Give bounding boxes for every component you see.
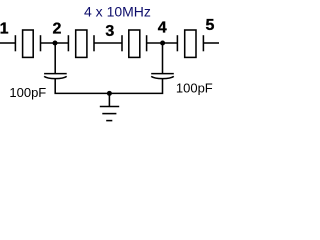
svg-text:2: 2 bbox=[53, 21, 62, 38]
capacitor C2 bbox=[151, 74, 174, 79]
svg-text:100pF: 100pF bbox=[9, 85, 46, 100]
svg-text:4: 4 bbox=[158, 20, 167, 37]
crystal X1 bbox=[15, 30, 40, 57]
crystal X3 bbox=[122, 30, 147, 57]
wire node 4 down to C2 bbox=[162, 43, 164, 74]
wire ground stem bbox=[108, 93, 110, 106]
wire X3 to X4 through node 4 bbox=[147, 42, 178, 44]
svg-text:1: 1 bbox=[0, 21, 9, 38]
svg-text:3: 3 bbox=[105, 23, 114, 40]
crystal X4 bbox=[177, 30, 203, 57]
wire node1 to X1 bbox=[0, 42, 15, 44]
wire C2 to ground bus bbox=[109, 79, 162, 94]
wire X4 to node 5 bbox=[203, 42, 219, 44]
svg-text:4 x 10MHz: 4 x 10MHz bbox=[84, 3, 151, 19]
capacitor C1 bbox=[44, 74, 67, 79]
svg-text:5: 5 bbox=[205, 17, 214, 34]
junction node 2 bbox=[53, 41, 58, 46]
wire X1 to X2 through node 2 bbox=[41, 42, 69, 44]
crystal X2 bbox=[68, 30, 94, 57]
wire X2 to X3 through node 3 bbox=[94, 42, 122, 44]
svg-text:100pF: 100pF bbox=[176, 81, 213, 96]
junction ground node bbox=[107, 91, 112, 96]
wire C1 to ground bus bbox=[55, 79, 109, 94]
wire node 2 down to C1 bbox=[54, 43, 56, 74]
junction node 4 bbox=[160, 41, 165, 46]
ground bbox=[100, 107, 119, 121]
